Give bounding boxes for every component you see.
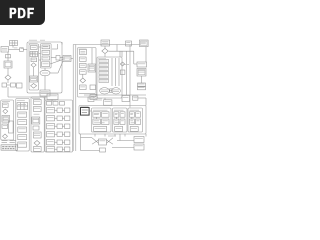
bus node box double border bbox=[63, 56, 71, 62]
wire junction to left container bbox=[23, 49, 27, 51]
stack box 1 text2 bbox=[43, 45, 49, 47]
middle col box 2 text bbox=[80, 58, 85, 60]
wire drop a bbox=[116, 45, 118, 52]
bl3 label bbox=[34, 113, 40, 115]
rows header bbox=[47, 102, 65, 106]
sub 2 wire bbox=[115, 117, 117, 119]
sub-column table text bbox=[31, 52, 36, 54]
wire middle vertical bbox=[91, 48, 93, 64]
sub-container 1 bbox=[92, 108, 112, 132]
wire col1-col2 c bbox=[39, 59, 41, 61]
bl1 diamond 2 bbox=[3, 134, 8, 139]
right container title bbox=[98, 58, 106, 60]
right container bbox=[97, 57, 122, 98]
sub 1 wire bbox=[96, 117, 98, 119]
wire start to junction bbox=[9, 49, 20, 51]
bl3 box 5 bbox=[34, 147, 42, 152]
bl2 box 1 bbox=[18, 112, 27, 117]
bl1 store text bbox=[3, 118, 8, 120]
middle small box bbox=[90, 85, 96, 90]
wire stack diag to bus node bbox=[50, 60, 63, 65]
band box d text bbox=[133, 97, 137, 99]
mid band box d bbox=[133, 96, 138, 100]
bl2 box 5 bbox=[18, 142, 27, 147]
stub below container x115 bbox=[114, 134, 116, 137]
diagonal wire b bbox=[92, 140, 99, 144]
left container label above bbox=[29, 39, 37, 41]
bl1 tall box bbox=[9, 121, 14, 133]
right strip store box bbox=[137, 69, 146, 77]
bl1 box 1 bbox=[3, 103, 9, 107]
wire table down bbox=[12, 46, 14, 48]
middle container title bbox=[79, 48, 87, 50]
middle col box 1 bbox=[80, 50, 87, 55]
junction text bbox=[21, 48, 24, 50]
right container inner vertical 3 bbox=[118, 58, 120, 86]
stack box 3 bbox=[42, 56, 50, 60]
wire to right boxes bbox=[117, 140, 134, 142]
small box bottom-left a bbox=[2, 83, 7, 87]
wire col1-col2 a bbox=[39, 46, 41, 48]
sub-container 1 title bbox=[93, 109, 108, 111]
bl2 box 4 text bbox=[19, 135, 26, 137]
top horizontal wire bbox=[73, 44, 139, 46]
wire below horiz bbox=[81, 137, 93, 139]
wire ellipse to band box bbox=[104, 98, 106, 100]
stacked pair text b bbox=[138, 87, 145, 89]
decision diamond right bbox=[102, 48, 108, 53]
row 2 bbox=[47, 116, 70, 121]
wire output box to rows container bbox=[44, 96, 46, 100]
bl2 box 3 bbox=[18, 127, 27, 132]
sub 2 box a text bbox=[115, 113, 118, 115]
tiny diamond right strip bbox=[120, 62, 124, 66]
right strip stacked pair bbox=[138, 83, 146, 90]
wire stack to tiny box bbox=[51, 57, 56, 59]
middle col box 3 text bbox=[80, 64, 85, 66]
bus node text bbox=[65, 57, 70, 59]
box above rows container bbox=[47, 94, 58, 100]
left container bbox=[27, 42, 62, 93]
wire middle bottom bbox=[79, 93, 95, 95]
wire long right to bottom cluster bbox=[8, 96, 47, 98]
right list row 3 bbox=[99, 68, 109, 71]
row 3 bbox=[47, 124, 70, 129]
small box top-right bbox=[126, 41, 132, 46]
sub 3 box b bbox=[136, 112, 141, 117]
stack box 4 bbox=[42, 62, 50, 67]
ellipse node left container bbox=[40, 70, 50, 76]
bl2 box 1 text bbox=[19, 113, 26, 115]
right list row 1 bbox=[99, 60, 109, 63]
sub 2 box d bbox=[120, 119, 125, 124]
wire down to process box bbox=[7, 52, 9, 61]
mid band box a bbox=[88, 97, 94, 102]
sub-column small box text bbox=[32, 59, 36, 61]
ellipse right container b bbox=[112, 88, 121, 94]
wire stack to ellipse bbox=[44, 68, 46, 70]
top node above right container bbox=[101, 40, 110, 46]
wire store to pair bbox=[141, 76, 143, 83]
rows container title bbox=[46, 100, 56, 102]
legend text bbox=[141, 42, 146, 44]
right strip label box bbox=[137, 62, 147, 67]
right store text bbox=[138, 71, 145, 73]
small box top-right text bbox=[126, 42, 130, 44]
wire band to right bbox=[138, 97, 146, 99]
sub-column diamond 2 bbox=[31, 84, 37, 89]
dark header box bbox=[81, 108, 90, 116]
bl3 box 3 bbox=[33, 126, 39, 130]
caption text lines bbox=[2, 141, 16, 143]
bottom-right container bbox=[79, 106, 146, 135]
label on wire bbox=[14, 47, 18, 49]
sub 3 box a text bbox=[130, 113, 133, 115]
mid band box c bbox=[122, 96, 130, 102]
small box bottom-left b bbox=[11, 83, 16, 87]
middle store text bbox=[89, 67, 94, 69]
bl1 store box bbox=[2, 116, 10, 123]
sub 1 box a bbox=[93, 112, 100, 117]
sub-column box 1 bbox=[31, 46, 38, 50]
legend box top-right double border bbox=[140, 40, 149, 47]
wire long down bbox=[7, 87, 9, 97]
bottom-left container 1 title bbox=[2, 101, 10, 103]
vertical wire right strip 1 bbox=[129, 45, 131, 108]
middle container bbox=[78, 48, 97, 98]
wire drop b bbox=[119, 51, 121, 57]
junction box bbox=[20, 48, 24, 52]
bottom-left container 1 bbox=[1, 100, 14, 140]
tiny box near right edge bbox=[56, 56, 60, 61]
stack box 3 text bbox=[43, 57, 49, 59]
wire ellipse a-b bbox=[109, 90, 111, 92]
bus vertical line 1 bbox=[72, 45, 74, 152]
row 1 bbox=[47, 108, 70, 113]
bottom-left container 3 bbox=[31, 97, 44, 152]
bl3 box 1 bbox=[34, 100, 42, 105]
small label node bbox=[6, 55, 11, 58]
right list row 2 bbox=[99, 64, 109, 67]
start node box bbox=[1, 47, 9, 53]
wire container top to bus top bbox=[61, 42, 63, 45]
bl2 box 3 text bbox=[19, 128, 26, 130]
PDF badge bbox=[0, 0, 45, 25]
wire to right boxes 2 bbox=[112, 147, 134, 149]
right strip wire label bbox=[123, 64, 129, 66]
ellipse b text bbox=[113, 90, 119, 92]
tiny box between ellipses bbox=[110, 89, 113, 93]
bottom-right container title bbox=[81, 105, 89, 107]
middle right store box bbox=[88, 64, 96, 72]
sub 3 box d bbox=[136, 119, 141, 124]
wire bus node to bus bbox=[71, 58, 73, 60]
stub below container x105 bbox=[104, 134, 106, 137]
wire right container top right bbox=[121, 51, 123, 57]
bl1 box 2 bbox=[2, 124, 8, 128]
bl3 diamond bbox=[34, 141, 40, 146]
left container label above b bbox=[40, 39, 45, 41]
bl1 box 2 text bbox=[3, 125, 7, 127]
decision diamond left bbox=[5, 75, 11, 80]
left sub-column frame bbox=[29, 44, 39, 90]
wire below left vertical bbox=[80, 134, 82, 151]
wire a-b bbox=[7, 84, 11, 86]
wire container corner down bbox=[145, 134, 147, 137]
wire inner top vertical bbox=[57, 44, 59, 49]
stack box 2 bbox=[42, 50, 50, 54]
bottom right stacked box 2 bbox=[134, 144, 144, 150]
sub 2 box c text bbox=[115, 122, 121, 124]
sub-container 2 bbox=[113, 108, 128, 132]
sub 1 box d bbox=[102, 119, 109, 124]
wire col1-col2 b bbox=[39, 53, 41, 55]
middle bottom corner box bbox=[90, 95, 97, 100]
wire box above into rows container bbox=[51, 100, 53, 102]
sub-container 3 bbox=[128, 108, 143, 132]
wire b to box bbox=[16, 84, 17, 86]
bl1 diamond 1 bbox=[3, 109, 8, 114]
bl3 box 4 bbox=[34, 132, 42, 138]
sub 2 box e bbox=[115, 127, 123, 132]
wire legend down bbox=[145, 47, 147, 62]
output box bottom of left container bbox=[40, 90, 50, 96]
middle col box 4 bbox=[80, 70, 87, 74]
middle col diamond bbox=[80, 78, 86, 83]
diagonal wire a bbox=[92, 138, 99, 143]
sub 1 box a text bbox=[94, 113, 99, 115]
right list row 4 bbox=[99, 72, 109, 75]
wire process to decision bbox=[7, 68, 9, 75]
stack box 1 bbox=[42, 45, 50, 49]
sub-column small box bbox=[31, 58, 37, 62]
middle col box 3 bbox=[80, 63, 87, 67]
middle col box 4 text bbox=[80, 71, 85, 73]
stub below container x125 bbox=[124, 134, 126, 137]
bl2 box 2 text bbox=[19, 120, 26, 122]
bottom-left container 2 bbox=[16, 99, 29, 152]
vertical wire right strip 3 bbox=[126, 51, 128, 95]
box right of pair bbox=[17, 83, 23, 88]
bl3 box 1 text bbox=[34, 100, 40, 102]
sub-container 3 title bbox=[130, 109, 140, 111]
sub 1 box c text bbox=[94, 122, 105, 124]
sub 1 box b bbox=[102, 112, 109, 117]
right container inner vertical 2 bbox=[115, 58, 117, 86]
right list row 6 bbox=[99, 80, 109, 83]
wire down to bottom container bbox=[145, 98, 147, 106]
bus vertical line 2 bbox=[75, 45, 77, 152]
band box a text bbox=[89, 98, 94, 100]
wire dark box to sub 1 bbox=[89, 110, 91, 112]
stacked pair text a bbox=[138, 83, 145, 85]
bottom right stacked box 1 bbox=[134, 137, 144, 143]
left container title bbox=[29, 43, 38, 45]
wire node to diamond bbox=[104, 46, 106, 48]
sub 1 box e bbox=[94, 127, 107, 132]
sub 3 box c text bbox=[131, 122, 137, 124]
wire tiny box to bus node bbox=[60, 57, 63, 59]
middle col box 2 bbox=[80, 57, 87, 61]
store box text bbox=[31, 78, 36, 80]
table node top-left bbox=[10, 41, 18, 46]
bl2 table bbox=[17, 103, 28, 110]
wire diag up to bus node bbox=[58, 61, 63, 73]
bottom-left container 3 title bbox=[32, 97, 40, 99]
wire box4 to diamond bbox=[82, 74, 84, 78]
bl3 store box bbox=[32, 117, 40, 124]
bl2 table text bbox=[18, 105, 26, 107]
sub-container 2 title bbox=[114, 109, 124, 111]
ellipse right container a bbox=[100, 88, 110, 94]
wire ellipse right bbox=[50, 72, 58, 74]
bl2 box 5 text bbox=[19, 143, 26, 145]
diagonal wire c bbox=[107, 140, 114, 144]
top node extra text bbox=[103, 41, 108, 43]
bottom rows container bbox=[45, 100, 73, 152]
wire container bottom down bbox=[119, 134, 121, 141]
row 4 bbox=[47, 132, 70, 137]
sub 3 box c bbox=[129, 119, 134, 124]
bl3 box 4 text bbox=[34, 134, 40, 136]
stack box 2 text bbox=[43, 51, 49, 53]
bl3 box 5 text bbox=[34, 147, 40, 149]
wire diamond to store bbox=[33, 67, 35, 76]
bl1 box 1 text bbox=[3, 104, 7, 106]
wire diamond right bbox=[109, 50, 134, 52]
wire ellipse to output box bbox=[44, 76, 46, 90]
row 5 bbox=[47, 140, 70, 145]
label below container bbox=[108, 135, 116, 137]
row 6 bbox=[47, 147, 70, 152]
ellipse a text bbox=[101, 90, 108, 92]
bl3 store text bbox=[33, 119, 39, 121]
bl2 box 2 bbox=[18, 120, 27, 125]
stub below container x95 bbox=[94, 134, 96, 137]
ellipse text bbox=[42, 72, 48, 74]
sub 3 wire bbox=[131, 117, 133, 119]
stack box 4 text bbox=[43, 63, 49, 65]
process box double border bbox=[4, 61, 12, 68]
wire decision down bbox=[7, 80, 9, 83]
sub 3 box a bbox=[129, 112, 134, 117]
wire inner top bbox=[52, 48, 58, 50]
middle col box 5 bbox=[80, 85, 87, 90]
sub-column store box bbox=[30, 76, 38, 82]
bl2 box 4 bbox=[18, 135, 27, 140]
wire to label box bbox=[134, 63, 137, 65]
inner stack frame bbox=[41, 44, 52, 69]
bl3 box 2 bbox=[34, 107, 42, 112]
middle col box 5 text bbox=[80, 86, 85, 88]
sub-column table bbox=[30, 52, 38, 57]
bottom-left container 2 title bbox=[17, 99, 25, 101]
caption box generated-by bbox=[1, 145, 18, 150]
long wire above bottom container bbox=[84, 94, 146, 96]
sub 2 box a bbox=[114, 112, 119, 117]
right container inner vertical 1 bbox=[111, 58, 113, 86]
wire tiny box left bbox=[81, 150, 100, 152]
tiny box below merge bbox=[100, 148, 106, 152]
bl3 box 2 text bbox=[34, 107, 40, 109]
merge node below container bbox=[99, 139, 107, 145]
sub-column diamond bbox=[31, 63, 36, 67]
wire diamond to container bbox=[104, 54, 106, 57]
right list row 5 bbox=[99, 76, 109, 79]
mid band box b bbox=[104, 100, 112, 105]
sub 3 box e bbox=[130, 127, 138, 132]
diagonal wire d bbox=[107, 138, 114, 143]
labels near band bbox=[95, 98, 102, 100]
sub 2 box c bbox=[114, 119, 119, 124]
sub 2 box b bbox=[120, 112, 125, 117]
tiny box right strip bbox=[120, 70, 125, 74]
vertical wire right strip 2 bbox=[133, 51, 135, 64]
sub 1 box c bbox=[93, 119, 100, 124]
